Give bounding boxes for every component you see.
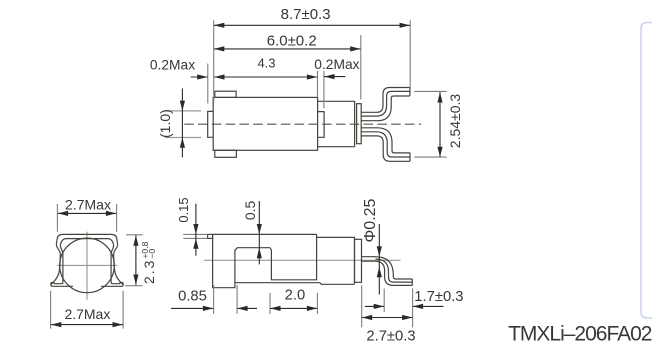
extension line 2.7Max top right (116, 204, 118, 232)
extension line 0.85 right (236, 285, 238, 314)
extension line at right grommet edge (323, 71, 325, 108)
svg-text:0.2Max: 0.2Max (314, 57, 359, 72)
dimension line 0.5 upper (258, 201, 260, 248)
extension line 0.15 bottom (183, 237, 207, 239)
svg-text:2.7Max: 2.7Max (64, 306, 110, 322)
svg-text:6.0±0.2: 6.0±0.2 (267, 33, 317, 50)
upper lead end face (409, 88, 411, 97)
dimension leader 1.7 left (365, 305, 384, 307)
dimension line 8.7±0.3 (214, 24, 410, 26)
dimension leader 0.85 right (237, 307, 257, 309)
arrowhead 0.5 down (257, 224, 262, 234)
arrowhead 2.7Max top left (58, 211, 68, 216)
extension line 2.7 left (361, 285, 363, 327)
arrowhead 2.3 bottom (133, 275, 138, 285)
right can section (318, 101, 355, 146)
arrowhead 2.7 left (362, 315, 372, 320)
lead wire top edge with S-bend (362, 257, 413, 279)
cylinder circle (crystal can end) (60, 238, 115, 293)
dimension leader 1.7 right (413, 305, 444, 307)
arrowhead 0.15 up (193, 239, 198, 249)
upper lead wire middle edge (361, 91, 410, 116)
extension line 2.3 top (126, 234, 143, 236)
arrowhead 8.7 right (400, 23, 410, 28)
dimension leader 0.85 left (171, 307, 213, 309)
extension line 0.85 left (213, 285, 215, 314)
arrowhead Phi0.25 down (377, 246, 382, 256)
svg-text:0.2Max: 0.2Max (150, 57, 195, 72)
dimension line 2.3 (135, 236, 137, 285)
end cap disc (357, 104, 362, 144)
svg-text:1.7±0.3: 1.7±0.3 (414, 289, 463, 305)
arrowhead 2.0 right (307, 306, 317, 311)
arrowhead 2.54 bottom (437, 147, 442, 157)
arrowhead 2.0 left (270, 306, 280, 311)
svg-text:2.0: 2.0 (285, 288, 306, 304)
extension line at left grommet edge (207, 64, 209, 104)
left grommet notch (208, 111, 214, 137)
extension line 2.0 left (269, 293, 271, 314)
arrowhead 0.2Max right (324, 74, 334, 79)
center axis line (dashed) of side view (184, 123, 421, 125)
svg-text:2.7±0.3: 2.7±0.3 (366, 329, 415, 344)
arrowhead 0.85 right (237, 306, 247, 311)
dimension line 2.7Max top (58, 212, 116, 214)
arrowhead Phi0.25 up (377, 267, 382, 277)
lower lead wire inner edge (361, 128, 410, 153)
end cap disc (355, 239, 362, 282)
arrowhead 2.54 top (437, 92, 442, 102)
dimension leader 0.2Max right (324, 76, 345, 78)
dimension line 0.5 lower tail (258, 248, 260, 265)
clip right half inner contour and foot tip (mirrored) (87, 239, 123, 285)
arrowhead 2.7Max top right (106, 211, 116, 216)
clip right half outer contour (mirrored) (87, 234, 123, 286)
clip left half inner contour and foot tip (51, 239, 87, 285)
upper lead wire inner edge (361, 96, 410, 121)
extension line 2.7Max top left (56, 204, 58, 232)
arrowhead 0.2Max left (197, 74, 207, 79)
extension line for 8.7 dimension at lead tips (409, 20, 411, 87)
dimension line 0.15 (195, 204, 197, 256)
main can body (213, 97, 317, 150)
extension line at body right edge (317, 71, 319, 98)
arrowhead 2.7Max bottom left (51, 322, 61, 327)
dimension line (1.0) (181, 89, 183, 158)
arrowhead 6.0 right (350, 46, 360, 51)
lower lead wire outer edge (361, 136, 410, 161)
arrowhead 2.7Max bottom right (113, 322, 123, 327)
arrowhead 4.3 left (214, 74, 224, 79)
bottom-left mounting tab (215, 150, 237, 157)
center axis line of bottom view (204, 259, 401, 261)
svg-text:TMXLi–206FA02: TMXLi–206FA02 (508, 322, 652, 344)
dimension line 4.3 (214, 76, 317, 78)
svg-text:2.54±0.3: 2.54±0.3 (447, 94, 463, 149)
top-left mounting tab (215, 91, 236, 97)
extension line for (1.0) bottom (165, 137, 201, 139)
dimension line Phi0.25 (378, 224, 380, 295)
extension line 2.0 right (316, 293, 318, 314)
extension line 2.3 bottom (125, 285, 142, 287)
clip holder outline with recess (213, 234, 355, 287)
svg-text:0.5: 0.5 (242, 200, 258, 220)
clip lip (0.15 thick) (208, 234, 213, 238)
clip left half outer contour (51, 234, 87, 286)
svg-text:2.7Max: 2.7Max (65, 196, 111, 212)
arrowhead 1.7 right (413, 304, 423, 309)
svg-text:4.3: 4.3 (257, 56, 275, 71)
can section right portion (317, 237, 355, 284)
arrowhead 2.3 top (133, 236, 138, 246)
extension line 0.15 top (183, 233, 207, 235)
svg-text:0.15: 0.15 (176, 197, 191, 222)
dimension line 2.7Max bottom (51, 324, 123, 326)
dimension line 2.54±0.3 (439, 92, 441, 157)
svg-text:Φ0.25: Φ0.25 (362, 198, 379, 242)
arrowhead (1.0) top (180, 101, 185, 111)
arrowhead 4.3 right (307, 74, 317, 79)
dimension leader 0.2Max left (191, 76, 208, 78)
extension line for (1.0) top (165, 110, 201, 112)
lead foot end face (411, 279, 413, 285)
extension line for 6.0 dimension (360, 35, 362, 99)
extension line 2.7Max bottom right (122, 291, 124, 329)
arrowhead 0.85 left (203, 306, 213, 311)
extension line for 2.54 bottom (414, 156, 446, 158)
dimension line 6.0±0.2 (214, 48, 361, 50)
svg-text:0.85: 0.85 (178, 288, 207, 304)
dimension line 2.7±0.3 (362, 317, 413, 319)
lower lead end face (409, 153, 411, 161)
extension line for 2.54 top (414, 90, 446, 92)
arrowhead 0.5 up (257, 248, 262, 258)
svg-text:8.7±0.3: 8.7±0.3 (281, 6, 331, 23)
dimension line 2.0 (270, 307, 317, 309)
extension line 1.7 left (383, 289, 385, 313)
lead wire middle edge with S-bend (376, 259, 413, 282)
extension line 1.7/2.7 right (412, 288, 414, 327)
right grommet notch (318, 112, 325, 138)
svg-text:(1.0): (1.0) (157, 109, 173, 138)
lead wire bottom edge with S-bend (362, 261, 413, 285)
crosshair vertical center line (86, 232, 88, 300)
upper lead wire outer edge (361, 88, 410, 113)
arrowhead 6.0 left (214, 46, 224, 51)
extension line 2.7Max bottom left (50, 291, 52, 329)
arrowhead 1.7 left (374, 304, 384, 309)
extension line at body left edge (213, 20, 215, 103)
crosshair horizontal center line (57, 264, 117, 266)
lower lead wire middle edge (361, 132, 410, 157)
arrowhead 8.7 left (214, 23, 224, 28)
arrowhead (1.0) bottom (180, 138, 185, 148)
arrowhead 2.7 right (402, 315, 412, 320)
arrowhead 0.15 down (193, 224, 198, 234)
frame border (faint blue table cell edge) (641, 23, 652, 319)
